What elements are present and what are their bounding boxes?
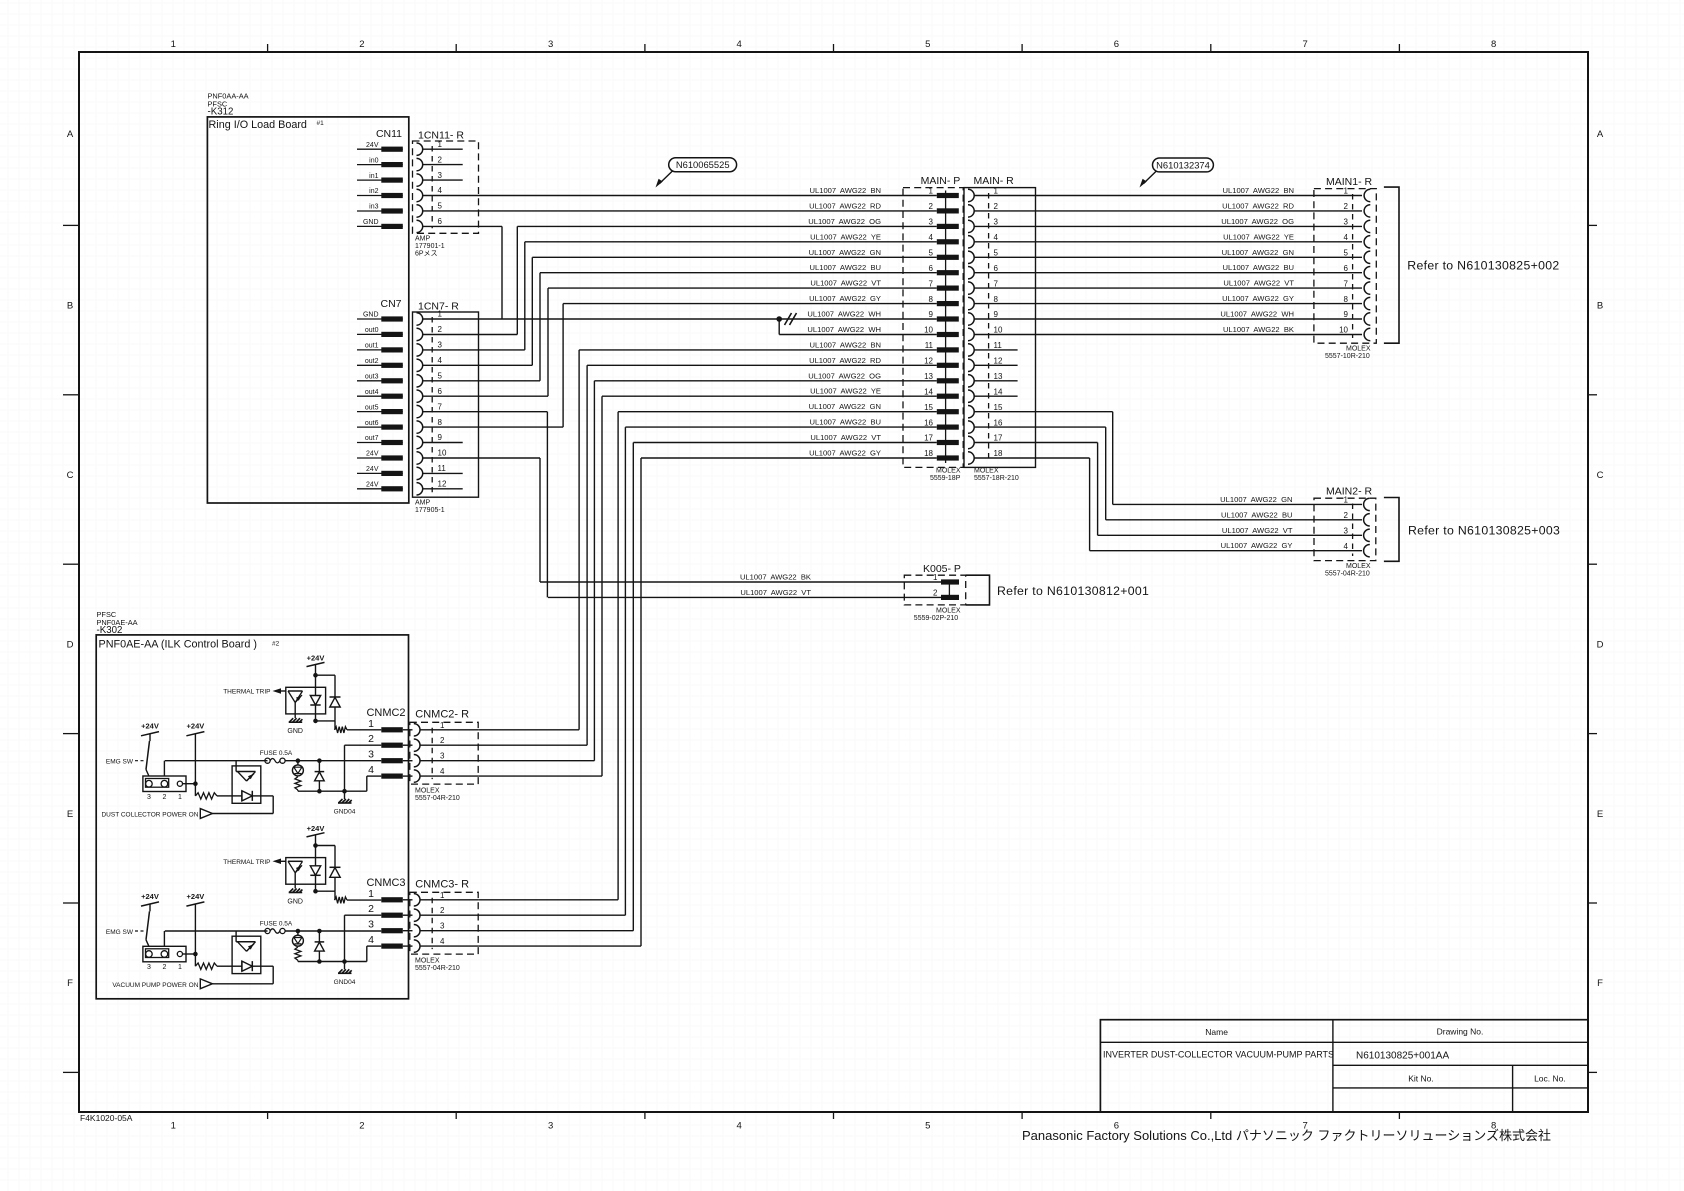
svg-text:out2: out2 [365, 358, 379, 365]
svg-text:1: 1 [438, 140, 443, 149]
svg-text:7: 7 [1344, 279, 1349, 288]
svg-text:C: C [67, 470, 74, 481]
svg-text:5: 5 [925, 39, 930, 50]
svg-text:6: 6 [438, 387, 443, 396]
svg-text:UL1007 AWG22 RD: UL1007 AWG22 RD [809, 201, 881, 210]
svg-text:4: 4 [737, 39, 742, 50]
svg-text:177905-1: 177905-1 [415, 507, 445, 514]
svg-text:Drawing No.: Drawing No. [1437, 1027, 1484, 1037]
svg-text:Panasonic Factory Solutions Co: Panasonic Factory Solutions Co.,Ltd パナソニ… [1022, 1128, 1551, 1143]
svg-text:3: 3 [440, 922, 445, 931]
svg-text:GND: GND [287, 898, 303, 905]
svg-text:+24V: +24V [307, 824, 325, 833]
svg-text:out3: out3 [365, 374, 379, 381]
svg-text:DUST COLLECTOR POWER ON: DUST COLLECTOR POWER ON [101, 812, 198, 819]
svg-text:out0: out0 [365, 327, 379, 334]
svg-text:MAIN- P: MAIN- P [921, 175, 961, 187]
svg-text:3: 3 [147, 964, 151, 971]
svg-text:GND04: GND04 [334, 809, 356, 816]
svg-text:4: 4 [994, 233, 999, 242]
svg-text:4: 4 [440, 767, 445, 776]
svg-text:+24V: +24V [141, 722, 159, 731]
svg-text:UL1007 AWG22 BK: UL1007 AWG22 BK [1223, 325, 1294, 334]
svg-text:5: 5 [994, 249, 999, 258]
svg-text:UL1007 AWG22 GN: UL1007 AWG22 GN [809, 248, 881, 257]
svg-text:17: 17 [924, 434, 933, 443]
svg-text:UL1007 AWG22 BN: UL1007 AWG22 BN [810, 186, 881, 195]
svg-text:CNMC2- R: CNMC2- R [415, 708, 469, 720]
svg-text:5559-18P: 5559-18P [930, 475, 961, 482]
svg-text:5: 5 [1344, 249, 1349, 258]
svg-text:#2: #2 [272, 641, 280, 648]
svg-text:UL1007 AWG22 GY: UL1007 AWG22 GY [1221, 541, 1293, 550]
svg-text:13: 13 [924, 372, 933, 381]
svg-text:Ring I/O Load Board: Ring I/O Load Board [209, 119, 307, 131]
svg-text:Refer to N610130825+003: Refer to N610130825+003 [1408, 524, 1560, 538]
svg-text:C: C [1597, 470, 1604, 481]
svg-text:4: 4 [368, 934, 374, 946]
svg-text:N610130825+001AA: N610130825+001AA [1356, 1051, 1449, 1062]
svg-text:UL1007 AWG22 GY: UL1007 AWG22 GY [809, 294, 881, 303]
svg-text:5557-04R-210: 5557-04R-210 [1325, 571, 1370, 578]
svg-text:UL1007 AWG22 BN: UL1007 AWG22 BN [810, 340, 881, 349]
svg-text:out1: out1 [365, 343, 379, 350]
svg-text:UL1007 AWG22 OG: UL1007 AWG22 OG [808, 371, 881, 380]
svg-text:3: 3 [548, 1121, 553, 1132]
svg-text:out6: out6 [365, 420, 379, 427]
svg-text:3: 3 [438, 171, 443, 180]
svg-text:#1: #1 [317, 120, 325, 127]
svg-text:in0: in0 [369, 157, 378, 164]
svg-text:2: 2 [368, 903, 374, 915]
svg-text:F: F [1597, 978, 1603, 989]
svg-text:UL1007 AWG22 BU: UL1007 AWG22 BU [1223, 263, 1294, 272]
svg-text:6: 6 [438, 217, 443, 226]
svg-text:7: 7 [994, 279, 999, 288]
svg-text:+24V: +24V [187, 722, 205, 731]
svg-text:AMP: AMP [415, 500, 431, 507]
svg-text:2: 2 [933, 589, 938, 598]
svg-text:2: 2 [438, 325, 443, 334]
svg-text:7: 7 [1302, 39, 1307, 50]
svg-text:8: 8 [438, 418, 443, 427]
svg-text:4: 4 [1344, 233, 1349, 242]
svg-text:3: 3 [440, 752, 445, 761]
svg-text:2: 2 [359, 1121, 364, 1132]
svg-text:UL1007 AWG22 OG: UL1007 AWG22 OG [1221, 217, 1294, 226]
svg-text:8: 8 [1491, 39, 1496, 50]
svg-text:10: 10 [994, 326, 1003, 335]
svg-text:E: E [67, 809, 73, 820]
svg-text:13: 13 [994, 372, 1003, 381]
svg-text:UL1007 AWG22 VT: UL1007 AWG22 VT [1222, 526, 1293, 535]
svg-text:Loc. No.: Loc. No. [1534, 1074, 1566, 1084]
svg-text:1: 1 [1344, 187, 1349, 196]
svg-text:E: E [1597, 809, 1603, 820]
svg-text:4: 4 [368, 764, 374, 776]
svg-text:4: 4 [438, 186, 443, 195]
svg-text:in2: in2 [369, 188, 378, 195]
svg-text:15: 15 [994, 403, 1003, 412]
svg-text:EMG SW: EMG SW [106, 929, 134, 936]
svg-text:1: 1 [440, 891, 445, 900]
svg-text:5: 5 [438, 202, 443, 211]
svg-text:177901-1: 177901-1 [415, 243, 445, 250]
svg-text:24V: 24V [366, 466, 379, 473]
svg-text:-K302: -K302 [97, 625, 123, 636]
svg-text:1: 1 [438, 310, 443, 319]
svg-text:Refer to N610130825+002: Refer to N610130825+002 [1407, 259, 1559, 273]
svg-text:5: 5 [438, 372, 443, 381]
svg-text:UL1007 AWG22 VT: UL1007 AWG22 VT [810, 279, 881, 288]
svg-text:PNF0AE-AA (ILK Control Board ): PNF0AE-AA (ILK Control Board ) [99, 639, 257, 651]
svg-text:4: 4 [737, 1121, 742, 1132]
svg-text:11: 11 [994, 341, 1003, 350]
svg-text:EMG SW: EMG SW [106, 759, 134, 766]
svg-text:UL1007 AWG22 OG: UL1007 AWG22 OG [808, 217, 881, 226]
svg-text:1: 1 [933, 573, 938, 582]
svg-text:2: 2 [162, 794, 166, 801]
svg-text:FUSE 0.5A: FUSE 0.5A [260, 750, 293, 757]
svg-text:11: 11 [925, 341, 934, 350]
svg-text:4: 4 [929, 233, 934, 242]
svg-text:Name: Name [1205, 1027, 1228, 1037]
svg-text:N610132374: N610132374 [1156, 159, 1210, 170]
svg-text:12: 12 [438, 480, 447, 489]
svg-text:10: 10 [1339, 326, 1348, 335]
svg-text:9: 9 [438, 433, 443, 442]
svg-text:5557-18R-210: 5557-18R-210 [974, 475, 1019, 482]
svg-text:UL1007 AWG22 BK: UL1007 AWG22 BK [740, 573, 811, 582]
svg-text:GND04: GND04 [334, 979, 356, 986]
svg-text:MOLEX: MOLEX [1346, 563, 1371, 570]
svg-text:3: 3 [548, 39, 553, 50]
svg-text:VACUUM PUMP POWER ON: VACUUM PUMP POWER ON [112, 982, 198, 989]
svg-text:5: 5 [929, 249, 934, 258]
svg-text:12: 12 [924, 357, 933, 366]
svg-text:UL1007 AWG22 GN: UL1007 AWG22 GN [809, 402, 881, 411]
svg-text:5557-04R-210: 5557-04R-210 [415, 795, 460, 802]
svg-text:out7: out7 [365, 435, 379, 442]
svg-text:A: A [1597, 129, 1604, 140]
svg-text:MAIN- R: MAIN- R [974, 175, 1015, 187]
svg-text:2: 2 [368, 733, 374, 745]
svg-text:+24V: +24V [187, 892, 205, 901]
svg-text:2: 2 [359, 39, 364, 50]
svg-text:F4K1020-05A: F4K1020-05A [80, 1113, 133, 1123]
svg-text:1: 1 [178, 964, 182, 971]
svg-text:D: D [1597, 639, 1604, 650]
svg-text:Refer to N610130812+001: Refer to N610130812+001 [997, 584, 1149, 598]
svg-text:1: 1 [178, 794, 182, 801]
svg-text:6Pメス: 6Pメス [415, 250, 438, 258]
svg-text:2: 2 [994, 202, 999, 211]
svg-text:6: 6 [1114, 39, 1119, 50]
svg-text:10: 10 [924, 326, 933, 335]
svg-text:24V: 24V [366, 142, 379, 149]
svg-text:14: 14 [924, 387, 933, 396]
svg-text:UL1007 AWG22 BN: UL1007 AWG22 BN [1223, 186, 1294, 195]
svg-text:9: 9 [929, 310, 934, 319]
svg-text:5: 5 [925, 1121, 930, 1132]
svg-text:+24V: +24V [141, 892, 159, 901]
svg-text:UL1007 AWG22 GN: UL1007 AWG22 GN [1220, 495, 1292, 504]
svg-text:UL1007 AWG22 RD: UL1007 AWG22 RD [1222, 201, 1294, 210]
svg-text:3: 3 [994, 218, 999, 227]
svg-text:N610065525: N610065525 [676, 159, 730, 170]
svg-text:MOLEX: MOLEX [1346, 346, 1371, 353]
svg-text:3: 3 [368, 919, 374, 931]
svg-text:UL1007 AWG22 BU: UL1007 AWG22 BU [810, 418, 881, 427]
svg-text:4: 4 [1344, 542, 1349, 551]
svg-text:2: 2 [1344, 202, 1349, 211]
svg-text:MOLEX: MOLEX [415, 958, 440, 965]
svg-text:3: 3 [438, 341, 443, 350]
svg-text:+24V: +24V [307, 654, 325, 663]
svg-text:1: 1 [1344, 496, 1349, 505]
svg-text:16: 16 [994, 418, 1003, 427]
svg-text:8: 8 [929, 295, 934, 304]
svg-text:INVERTER DUST-COLLECTOR VACUUM: INVERTER DUST-COLLECTOR VACUUM-PUMP PART… [1103, 1050, 1334, 1060]
svg-text:UL1007 AWG22 BU: UL1007 AWG22 BU [810, 263, 881, 272]
svg-text:Kit No.: Kit No. [1408, 1074, 1434, 1084]
svg-text:2: 2 [438, 155, 443, 164]
svg-text:UL1007 AWG22 GY: UL1007 AWG22 GY [809, 449, 881, 458]
svg-text:MOLEX: MOLEX [974, 468, 999, 475]
svg-text:THERMAL TRIP: THERMAL TRIP [223, 859, 270, 866]
svg-text:in3: in3 [369, 204, 378, 211]
svg-text:16: 16 [924, 418, 933, 427]
svg-text:7: 7 [438, 402, 443, 411]
svg-text:1: 1 [171, 1121, 176, 1132]
svg-text:1: 1 [440, 721, 445, 730]
svg-text:6: 6 [994, 264, 999, 273]
svg-text:8: 8 [994, 295, 999, 304]
svg-text:UL1007 AWG22 WH: UL1007 AWG22 WH [807, 325, 881, 334]
svg-text:UL1007 AWG22 YE: UL1007 AWG22 YE [810, 232, 881, 241]
svg-text:MOLEX: MOLEX [936, 468, 961, 475]
svg-text:5559-02P-210: 5559-02P-210 [914, 615, 958, 622]
svg-text:18: 18 [994, 449, 1003, 458]
svg-text:6: 6 [1344, 264, 1349, 273]
svg-text:D: D [67, 639, 74, 650]
svg-text:5557-10R-210: 5557-10R-210 [1325, 353, 1370, 360]
svg-text:UL1007 AWG22 YE: UL1007 AWG22 YE [1223, 232, 1294, 241]
svg-text:MAIN2- R: MAIN2- R [1326, 486, 1373, 498]
svg-text:1: 1 [368, 718, 374, 730]
svg-text:A: A [67, 129, 74, 140]
svg-text:17: 17 [994, 434, 1003, 443]
svg-text:-K312: -K312 [208, 107, 234, 118]
svg-text:1: 1 [929, 187, 934, 196]
svg-text:10: 10 [438, 449, 447, 458]
svg-text:out5: out5 [365, 404, 379, 411]
svg-text:UL1007 AWG22 VT: UL1007 AWG22 VT [740, 588, 811, 597]
svg-text:UL1007 AWG22 YE: UL1007 AWG22 YE [810, 387, 881, 396]
svg-text:11: 11 [438, 464, 447, 473]
svg-text:9: 9 [994, 310, 999, 319]
svg-text:CNMC3- R: CNMC3- R [415, 878, 469, 890]
svg-text:5557-04R-210: 5557-04R-210 [415, 965, 460, 972]
svg-text:GND: GND [363, 219, 379, 226]
svg-text:3: 3 [1344, 218, 1349, 227]
svg-text:UL1007 AWG22 WH: UL1007 AWG22 WH [1220, 310, 1294, 319]
svg-text:3: 3 [147, 794, 151, 801]
svg-text:out4: out4 [365, 389, 379, 396]
svg-text:24V: 24V [366, 482, 379, 489]
svg-text:CN7: CN7 [380, 298, 401, 310]
svg-text:4: 4 [438, 356, 443, 365]
svg-text:2: 2 [440, 736, 445, 745]
svg-text:AMP: AMP [415, 236, 431, 243]
svg-text:9: 9 [1344, 310, 1349, 319]
svg-text:UL1007 AWG22 VT: UL1007 AWG22 VT [1223, 279, 1294, 288]
svg-text:UL1007 AWG22 BU: UL1007 AWG22 BU [1221, 510, 1292, 519]
svg-text:FUSE 0.5A: FUSE 0.5A [260, 920, 293, 927]
svg-text:3: 3 [1344, 527, 1349, 536]
svg-text:2: 2 [162, 964, 166, 971]
svg-text:in1: in1 [369, 173, 378, 180]
svg-text:UL1007 AWG22 GN: UL1007 AWG22 GN [1222, 248, 1294, 257]
svg-text:UL1007 AWG22 GY: UL1007 AWG22 GY [1222, 294, 1294, 303]
svg-text:2: 2 [929, 202, 934, 211]
svg-text:6: 6 [929, 264, 934, 273]
svg-text:12: 12 [994, 357, 1003, 366]
svg-text:GND: GND [287, 728, 303, 735]
svg-text:UL1007 AWG22 VT: UL1007 AWG22 VT [810, 433, 881, 442]
svg-text:B: B [1597, 301, 1603, 312]
svg-text:18: 18 [924, 449, 933, 458]
svg-text:CN11: CN11 [376, 128, 402, 140]
svg-text:4: 4 [440, 937, 445, 946]
svg-text:MAIN1- R: MAIN1- R [1326, 176, 1373, 188]
svg-text:UL1007 AWG22 RD: UL1007 AWG22 RD [809, 356, 881, 365]
svg-text:14: 14 [994, 387, 1003, 396]
svg-text:15: 15 [924, 403, 933, 412]
svg-text:UL1007 AWG22 WH: UL1007 AWG22 WH [807, 310, 881, 319]
svg-text:2: 2 [440, 906, 445, 915]
svg-text:1: 1 [171, 39, 176, 50]
svg-text:24V: 24V [366, 451, 379, 458]
svg-text:MOLEX: MOLEX [936, 608, 961, 615]
svg-text:3: 3 [929, 218, 934, 227]
svg-text:F: F [67, 978, 73, 989]
svg-text:MOLEX: MOLEX [415, 788, 440, 795]
svg-text:8: 8 [1344, 295, 1349, 304]
svg-text:1: 1 [994, 187, 999, 196]
svg-text:1: 1 [368, 888, 374, 900]
svg-text:THERMAL TRIP: THERMAL TRIP [223, 689, 270, 696]
svg-text:3: 3 [368, 749, 374, 761]
svg-text:B: B [67, 301, 73, 312]
svg-text:2: 2 [1344, 511, 1349, 520]
svg-text:7: 7 [929, 279, 934, 288]
svg-text:K005- P: K005- P [923, 563, 961, 575]
svg-text:GND: GND [363, 312, 379, 319]
